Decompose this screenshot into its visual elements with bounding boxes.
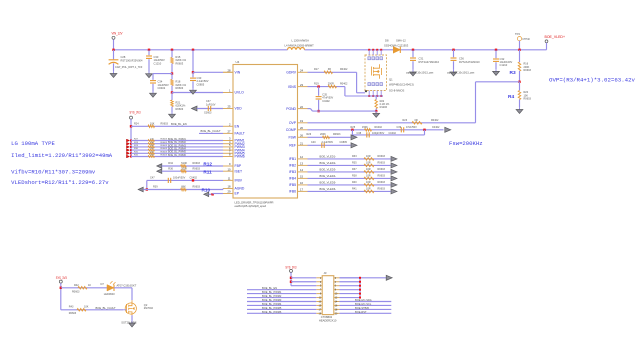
svg-text:R35: R35 — [352, 161, 357, 164]
svg-text:Vifbv=R10/R11*307.3=209mv: Vifbv=R10/R11*307.3=209mv — [11, 169, 96, 176]
svg-text:R19: R19 — [314, 83, 319, 86]
svg-text:R38: R38 — [352, 174, 357, 177]
svg-text:C40: C40 — [311, 141, 316, 144]
svg-text:Iled_limit=1.229/R11*3992=49mA: Iled_limit=1.229/R11*3992=49mA — [11, 152, 113, 159]
svg-text:47nF/50V: 47nF/50V — [406, 126, 417, 129]
svg-text:BOE_VLED4-: BOE_VLED4- — [320, 174, 337, 178]
svg-text:BOE_VLED1-: BOE_VLED1- — [320, 154, 337, 158]
svg-text:Q1: Q1 — [389, 78, 393, 82]
svg-text:BOE-STB/B: BOE-STB/B — [355, 306, 369, 310]
svg-text:150K: 150K — [362, 126, 368, 129]
svg-text:BOE_VLED3-: BOE_VLED3- — [320, 167, 337, 171]
svg-text:R43: R43 — [69, 306, 74, 309]
svg-text:R34: R34 — [168, 162, 173, 165]
svg-text:U4: U4 — [236, 60, 240, 64]
svg-text:WSP4810(C149413): WSP4810(C149413) — [389, 83, 414, 87]
svg-text:C0402: C0402 — [190, 177, 198, 180]
svg-text:C1210: C1210 — [154, 61, 162, 65]
svg-text:R0603: R0603 — [161, 123, 169, 126]
svg-text:C36: C36 — [459, 57, 464, 61]
svg-text:200K: 200K — [320, 133, 326, 136]
svg-text:EP: EP — [235, 192, 240, 196]
svg-text:C0402: C0402 — [389, 132, 397, 135]
svg-text:R39: R39 — [153, 186, 158, 189]
svg-text:10K: 10K — [150, 148, 154, 150]
svg-text:BOE_VLED6-: BOE_VLED6- — [320, 187, 337, 191]
svg-text:R1206: R1206 — [380, 106, 388, 109]
svg-text:SYS_3V3: SYS_3V3 — [130, 111, 141, 115]
svg-text:R0603: R0603 — [378, 168, 386, 171]
svg-text:C0805: C0805 — [197, 82, 205, 86]
svg-text:18: 18 — [228, 185, 231, 189]
svg-text:R0603: R0603 — [524, 69, 532, 72]
svg-text:10K: 10K — [150, 139, 154, 141]
svg-text:R26: R26 — [307, 133, 312, 136]
svg-text:R0603: R0603 — [378, 155, 386, 158]
svg-text:C0402: C0402 — [158, 86, 166, 90]
svg-text:C0603: C0603 — [204, 112, 212, 115]
svg-text:10K: 10K — [150, 155, 154, 157]
svg-text:SYS_3V3: SYS_3V3 — [285, 266, 296, 270]
svg-text:D8: D8 — [385, 38, 389, 42]
svg-text:21: 21 — [300, 142, 303, 146]
svg-text:R0603: R0603 — [193, 186, 201, 189]
svg-text:COMP: COMP — [286, 128, 297, 132]
svg-text:27: 27 — [228, 130, 231, 134]
svg-text:R0603: R0603 — [161, 148, 168, 150]
svg-text:68K: 68K — [181, 186, 186, 189]
svg-text:VIN_12V: VIN_12V — [112, 31, 124, 35]
svg-text:R0402: R0402 — [431, 119, 439, 122]
svg-text:RST100UF25V004: RST100UF25V004 — [121, 58, 143, 62]
svg-text:R11: R11 — [203, 169, 212, 174]
svg-text:R25: R25 — [351, 126, 356, 129]
svg-text:R0603: R0603 — [378, 174, 386, 177]
svg-text:ea28-0p65-4p5x9p8_eped: ea28-0p65-4p5x9p8_eped — [235, 204, 267, 208]
svg-text:BOE_BL_PWM1: BOE_BL_PWM1 — [262, 290, 282, 294]
svg-text:AT07-C1916GKT: AT07-C1916GKT — [117, 283, 137, 287]
svg-text:3R: 3R — [328, 68, 331, 71]
svg-text:C31: C31 — [419, 57, 424, 61]
svg-text:C47: C47 — [150, 177, 155, 180]
svg-text:10K: 10K — [150, 145, 154, 147]
svg-text:R0603: R0603 — [193, 168, 201, 171]
svg-text:10R: 10R — [366, 168, 371, 171]
svg-text:R0603: R0603 — [161, 142, 168, 144]
svg-text:10K: 10K — [150, 123, 155, 126]
svg-text:R0402: R0402 — [375, 126, 383, 129]
svg-text:R0402: R0402 — [340, 68, 348, 71]
svg-text:HEADER2X10: HEADER2X10 — [319, 318, 337, 322]
svg-text:IFB5: IFB5 — [289, 183, 296, 187]
svg-text:BOE_BL_FAULT: BOE_BL_FAULT — [96, 306, 116, 310]
svg-text:1uF/16V: 1uF/16V — [206, 103, 216, 106]
svg-text:BOE_BL_PWM6: BOE_BL_PWM6 — [262, 310, 282, 314]
svg-text:OVP: OVP — [289, 121, 297, 125]
svg-text:Q2: Q2 — [144, 303, 148, 307]
svg-text:R0603: R0603 — [333, 133, 341, 136]
svg-text:13: 13 — [300, 162, 303, 166]
svg-text:R10: R10 — [202, 187, 211, 192]
svg-text:BOE_VLED5-: BOE_VLED5- — [320, 180, 337, 184]
svg-text:CAP_POL_DIP7,1_7FF: CAP_POL_DIP7,1_7FF — [115, 65, 143, 69]
svg-text:R0603: R0603 — [161, 155, 168, 157]
svg-text:BOE_BL_PWM5: BOE_BL_PWM5 — [262, 306, 282, 310]
svg-text:100pF/50V: 100pF/50V — [372, 132, 385, 135]
svg-text:VIN: VIN — [235, 71, 241, 75]
svg-text:IFB4: IFB4 — [289, 177, 296, 181]
svg-text:2.2uF/50V: 2.2uF/50V — [322, 141, 334, 144]
svg-text:D7: D7 — [101, 282, 105, 286]
svg-text:IFB2: IFB2 — [289, 164, 296, 168]
svg-text:CTP40: CTP40 — [522, 38, 530, 41]
svg-text:IFB3: IFB3 — [289, 170, 296, 174]
svg-text:RVT2A471M1010: RVT2A471M1010 — [419, 60, 440, 64]
svg-text:Fsw=200KHz: Fsw=200KHz — [449, 140, 483, 147]
svg-text:LG 100mA TYPE: LG 100mA TYPE — [11, 140, 55, 147]
svg-text:R0603: R0603 — [69, 312, 77, 315]
svg-text:LED0603: LED0603 — [104, 292, 115, 296]
svg-text:FSW: FSW — [288, 136, 296, 140]
svg-text:REF: REF — [289, 144, 296, 148]
svg-text:R0603: R0603 — [161, 139, 168, 141]
svg-text:10K: 10K — [84, 306, 89, 309]
svg-text:R33: R33 — [352, 155, 357, 158]
svg-text:BOE-RST: BOE-RST — [355, 310, 367, 314]
svg-text:IFB6: IFB6 — [289, 190, 296, 194]
svg-text:10R: 10R — [366, 174, 371, 177]
svg-text:BOE_BL_EN: BOE_BL_EN — [262, 286, 277, 290]
svg-text:BOE_BL_FAULT: BOE_BL_FAULT — [201, 129, 221, 133]
svg-text:BOE_VLED+: BOE_VLED+ — [545, 35, 566, 39]
svg-text:10R: 10R — [366, 161, 371, 164]
svg-text:10: 10 — [228, 167, 231, 171]
svg-text:BOE_BL_PWM6: BOE_BL_PWM6 — [168, 154, 186, 157]
svg-text:C1210: C1210 — [500, 63, 508, 67]
svg-text:IFB1: IFB1 — [289, 157, 296, 161]
svg-text:R12: R12 — [203, 162, 212, 167]
svg-text:EN: EN — [235, 125, 240, 129]
svg-text:26: 26 — [300, 134, 303, 138]
svg-text:12: 12 — [300, 155, 303, 159]
svg-text:R41: R41 — [352, 187, 357, 190]
svg-text:SS54GMA C221953: SS54GMA C221953 — [384, 43, 409, 47]
svg-text:29: 29 — [228, 190, 231, 194]
svg-text:R23: R23 — [403, 119, 408, 122]
svg-text:BOE_VLED2-: BOE_VLED2- — [320, 161, 337, 165]
svg-text:TP4: TP4 — [515, 32, 520, 36]
svg-text:ISNS: ISNS — [288, 85, 297, 89]
svg-text:25: 25 — [228, 105, 231, 109]
svg-text:100nF/50V: 100nF/50V — [173, 177, 186, 180]
svg-text:SOT23_DDS: SOT23_DDS — [121, 320, 136, 324]
svg-text:19: 19 — [300, 119, 303, 123]
svg-text:23: 23 — [300, 83, 303, 87]
svg-text:R0603: R0603 — [378, 181, 386, 184]
svg-text:OVP=(R3/R4+1)*3.02=63.42v: OVP=(R3/R4+1)*3.02=63.42v — [549, 77, 636, 84]
svg-text:LED_DRIVER_TPS61199PWPR: LED_DRIVER_TPS61199PWPR — [235, 200, 274, 204]
svg-text:R0603: R0603 — [72, 291, 80, 294]
svg-text:1K: 1K — [88, 284, 91, 287]
svg-text:10R: 10R — [366, 155, 371, 158]
svg-text:R0603: R0603 — [176, 86, 184, 90]
svg-text:C38: C38 — [357, 132, 362, 135]
svg-text:BOE-I2C-SCL: BOE-I2C-SCL — [355, 302, 372, 306]
svg-text:28: 28 — [228, 69, 231, 73]
svg-text:R0603: R0603 — [161, 145, 168, 147]
svg-text:R42: R42 — [74, 284, 79, 287]
svg-text:16: 16 — [300, 181, 303, 185]
svg-text:R40: R40 — [352, 181, 357, 184]
svg-text:C0805: C0805 — [340, 141, 348, 144]
svg-text:R0603: R0603 — [378, 187, 386, 190]
svg-text:AGND: AGND — [235, 187, 245, 191]
svg-text:L 1206-MWSA: L 1206-MWSA — [292, 39, 310, 43]
svg-text:BOE_BL_PWM4: BOE_BL_PWM4 — [262, 302, 282, 306]
svg-text:510K: 510K — [181, 162, 187, 165]
svg-text:IFBV: IFBV — [235, 179, 243, 183]
svg-text:BOE_BL_PWM3: BOE_BL_PWM3 — [262, 298, 282, 302]
svg-text:17: 17 — [300, 188, 303, 192]
svg-text:R3: R3 — [510, 70, 516, 76]
svg-text:VLEDshort=R12/R11*1.229=6.27v: VLEDshort=R12/R11*1.229=6.27v — [11, 179, 109, 186]
svg-text:R36: R36 — [168, 168, 173, 171]
svg-text:VDD: VDD — [235, 107, 243, 111]
svg-text:R0603: R0603 — [378, 161, 386, 164]
svg-text:SO-8-NMOS: SO-8-NMOS — [389, 89, 404, 93]
svg-text:20: 20 — [300, 126, 303, 130]
svg-text:10K: 10K — [150, 151, 154, 153]
svg-text:R37: R37 — [352, 168, 357, 171]
svg-text:BOE_BL_PWM2: BOE_BL_PWM2 — [262, 294, 282, 298]
svg-text:R0603: R0603 — [176, 61, 184, 65]
svg-text:R17: R17 — [314, 68, 319, 71]
svg-text:C39: C39 — [397, 126, 402, 129]
svg-text:SYS_3V3: SYS_3V3 — [56, 276, 67, 280]
svg-text:C0402: C0402 — [432, 126, 440, 129]
svg-text:cap_aeN_10x10/13_pan: cap_aeN_10x10/13_pan — [447, 71, 475, 74]
svg-text:14: 14 — [300, 168, 303, 172]
svg-text:R4: R4 — [508, 94, 514, 100]
svg-text:200R: 200R — [328, 83, 334, 86]
svg-text:R0603: R0603 — [161, 151, 168, 153]
svg-text:R24: R24 — [134, 123, 139, 126]
svg-text:L4 MWSA12065-6R8MT: L4 MWSA12065-6R8MT — [285, 44, 315, 48]
svg-text:FBP: FBP — [235, 164, 242, 168]
svg-text:15: 15 — [300, 175, 303, 179]
svg-text:CT06B02: CT06B02 — [321, 315, 333, 319]
svg-text:BOE_BL_EN: BOE_BL_EN — [171, 122, 187, 126]
svg-text:GDRV: GDRV — [286, 71, 296, 75]
svg-text:RVT2A471M1010: RVT2A471M1010 — [459, 60, 480, 64]
svg-text:ISET: ISET — [235, 169, 243, 173]
svg-text:J3: J3 — [324, 271, 327, 275]
svg-text:10R: 10R — [366, 181, 371, 184]
svg-text:0R: 0R — [415, 119, 418, 122]
svg-text:R0603: R0603 — [193, 162, 201, 165]
svg-text:10K: 10K — [150, 142, 154, 144]
svg-text:PGND: PGND — [286, 107, 296, 111]
svg-text:BOE-I2C-SDA: BOE-I2C-SDA — [355, 298, 372, 302]
svg-text:UVLO: UVLO — [235, 91, 245, 95]
svg-text:C0402: C0402 — [322, 100, 330, 103]
svg-text:SMA-12: SMA-12 — [396, 38, 406, 42]
svg-text:2N7002: 2N7002 — [144, 306, 154, 310]
svg-text:22: 22 — [300, 105, 303, 109]
svg-text:R0603: R0603 — [524, 98, 532, 101]
svg-text:10R: 10R — [366, 187, 371, 190]
svg-text:cap_aeN_10x10/13_pan: cap_aeN_10x10/13_pan — [406, 71, 434, 74]
svg-text:100K: 100K — [181, 168, 187, 171]
svg-text:FAULT: FAULT — [235, 132, 245, 136]
svg-text:R0603: R0603 — [176, 107, 184, 111]
svg-text:24: 24 — [300, 69, 303, 73]
svg-text:R0402: R0402 — [340, 83, 348, 86]
svg-text:PWM6: PWM6 — [235, 155, 245, 159]
